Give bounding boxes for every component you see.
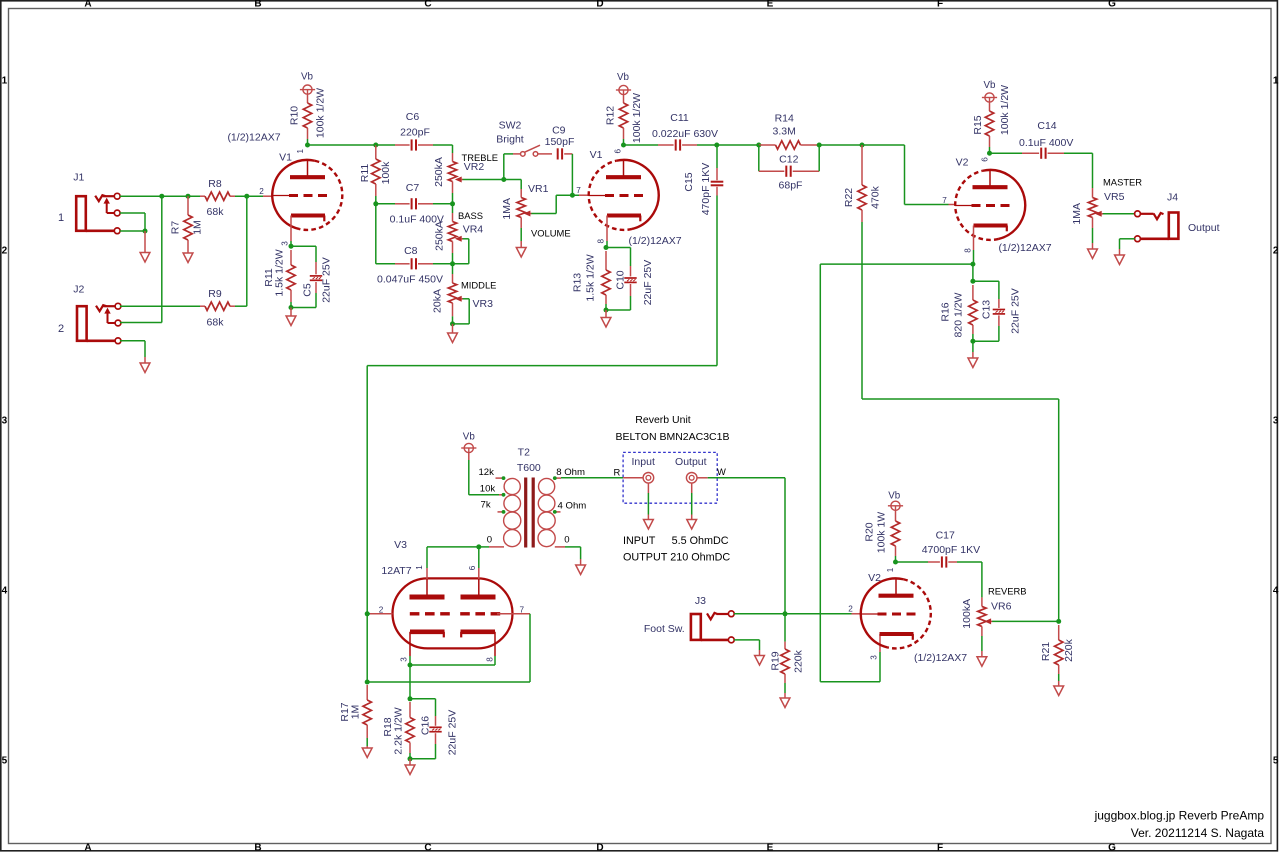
svg-text:R21: R21 — [1040, 642, 1052, 661]
svg-text:12k: 12k — [478, 467, 494, 478]
svg-text:VR3: VR3 — [473, 298, 494, 310]
power Vb (T2 primary) — [461, 432, 476, 453]
svg-text:8: 8 — [486, 657, 495, 662]
svg-text:R15: R15 — [972, 115, 984, 134]
svg-text:Bright: Bright — [496, 134, 524, 146]
svg-text:MASTER: MASTER — [1103, 177, 1142, 188]
svg-text:R16: R16 — [940, 302, 952, 321]
tube V1 second half (1/2)12AX7 — [589, 149, 682, 247]
svg-text:220k: 220k — [1063, 638, 1075, 662]
svg-text:OUTPUT 210 OhmDC: OUTPUT 210 OhmDC — [623, 551, 730, 563]
svg-text:B: B — [254, 0, 261, 9]
svg-text:5: 5 — [2, 756, 8, 767]
svg-text:Vb: Vb — [984, 80, 997, 91]
wire VR3 wiper loop — [453, 299, 470, 324]
svg-text:1: 1 — [886, 567, 895, 572]
svg-text:G: G — [1108, 843, 1116, 853]
ground J1 — [140, 253, 150, 263]
wire R13 ground node — [604, 308, 609, 318]
wire primary 0 to V3 plates — [427, 544, 489, 568]
svg-text:C5: C5 — [302, 283, 314, 297]
wire V3 plate pins — [427, 568, 479, 579]
svg-text:2: 2 — [58, 323, 64, 335]
svg-text:INPUT: INPUT — [623, 535, 656, 547]
svg-text:(1/2)12AX7: (1/2)12AX7 — [629, 235, 682, 247]
svg-text:12AT7: 12AT7 — [381, 565, 411, 577]
svg-text:F: F — [937, 0, 943, 9]
capacitor C6 220pF — [376, 111, 453, 151]
wire V1a plate node — [305, 143, 376, 148]
ground VR1 — [516, 248, 526, 258]
svg-text:Vb: Vb — [888, 491, 901, 502]
power Vb (V2b) — [888, 491, 903, 511]
svg-text:1: 1 — [1273, 76, 1279, 87]
tube V1 first half (1/2)12AX7 — [227, 132, 342, 230]
wire R22 to reverb mix node — [862, 399, 1059, 621]
svg-text:100k: 100k — [380, 161, 392, 185]
reverb unit title — [616, 414, 730, 443]
svg-text:4 Ohm: 4 Ohm — [558, 500, 587, 511]
switch SW2 Bright — [496, 120, 552, 157]
svg-text:E: E — [767, 0, 774, 9]
svg-text:5: 5 — [1273, 756, 1279, 767]
transformer T2 T600 — [478, 447, 586, 548]
svg-text:8: 8 — [597, 238, 606, 243]
svg-text:W: W — [717, 466, 726, 477]
wire V1b cathode — [604, 216, 609, 251]
svg-text:22uF 25V: 22uF 25V — [642, 260, 654, 306]
svg-text:V2: V2 — [868, 572, 881, 584]
svg-text:VR2: VR2 — [464, 161, 485, 173]
svg-text:VR5: VR5 — [1104, 191, 1125, 203]
resistor R16 820 1/2W — [940, 285, 978, 341]
potentiometer VR5 MASTER 1MA — [1071, 177, 1142, 250]
svg-text:C: C — [424, 843, 431, 853]
svg-text:R20: R20 — [864, 522, 876, 541]
connector J4 output jack — [1135, 192, 1220, 242]
svg-text:1M: 1M — [350, 705, 362, 720]
svg-text:0.022uF 630V: 0.022uF 630V — [652, 128, 718, 140]
svg-text:C6: C6 — [406, 111, 420, 123]
svg-text:6: 6 — [614, 148, 623, 153]
svg-text:68k: 68k — [207, 317, 225, 329]
ground V1a cathode — [286, 316, 296, 326]
wire J1 ring+sleeve to ground — [120, 213, 148, 253]
connector J2 (input jack 2) — [58, 284, 121, 344]
pin labels V1b — [576, 148, 622, 243]
svg-text:1: 1 — [58, 212, 64, 224]
capacitor C11 0.022uF 630V — [652, 112, 718, 151]
svg-text:3: 3 — [870, 655, 879, 660]
ground VR6 — [977, 657, 987, 667]
svg-text:2: 2 — [1273, 246, 1279, 257]
svg-text:(1/2)12AX7: (1/2)12AX7 — [227, 132, 280, 144]
ground J4 — [1115, 255, 1125, 265]
svg-text:R9: R9 — [208, 288, 222, 300]
connector J1 (input jack 1) — [58, 172, 120, 234]
wire volume node up to SW2 — [504, 154, 513, 180]
wire VR4 wiper loop — [453, 239, 469, 264]
resistor R11 100k (slope) — [359, 145, 392, 204]
svg-text:MIDDLE: MIDDLE — [461, 280, 496, 291]
resistor R12 100k 1/2W — [605, 93, 644, 145]
ground J3 — [755, 656, 765, 666]
resistor R11 1.5k 1/2W (cathode) — [263, 249, 295, 307]
svg-text:2: 2 — [259, 187, 264, 196]
svg-text:R11: R11 — [359, 164, 371, 183]
svg-text:R8: R8 — [208, 178, 222, 190]
svg-text:Output: Output — [675, 456, 707, 468]
svg-text:10k: 10k — [480, 484, 496, 495]
wire mix node to V2 grid — [819, 143, 955, 205]
power Vb (V1b) — [616, 72, 631, 95]
svg-text:T600: T600 — [517, 462, 541, 474]
svg-text:D: D — [596, 0, 603, 9]
svg-text:SW2: SW2 — [499, 120, 522, 132]
wire V1b plate node — [621, 143, 658, 148]
svg-text:0.1uF 400V: 0.1uF 400V — [1019, 137, 1073, 149]
svg-text:V1: V1 — [590, 149, 603, 161]
resistor R22 470k — [843, 145, 882, 399]
svg-text:A: A — [84, 0, 91, 9]
capacitor C12 68pF — [759, 145, 819, 192]
svg-text:R: R — [614, 466, 621, 477]
wire cathode ground node — [289, 305, 294, 316]
wire J1 tip to R8 with normalling branch — [120, 194, 200, 323]
resistor R8 68k — [200, 178, 235, 218]
capacitor C13 22uF 25V — [973, 281, 1022, 341]
ground R16/C13 — [968, 358, 978, 368]
pin labels V3 — [379, 565, 525, 662]
svg-text:F: F — [937, 843, 943, 853]
wire secondary 0 to ground — [565, 547, 581, 565]
wire VR5 wiper to J4 — [1103, 213, 1135, 215]
wire VR6 wiper to mix — [992, 619, 1061, 624]
svg-text:7: 7 — [520, 606, 525, 615]
svg-text:1M: 1M — [192, 220, 204, 235]
wire V2a plate node — [987, 151, 1022, 156]
pin labels V1a — [259, 148, 305, 245]
potentiometer VR6 REVERB 100kA — [961, 586, 1027, 657]
svg-text:4: 4 — [2, 586, 8, 597]
resistor R9 68k — [200, 288, 235, 329]
ground J2 — [140, 363, 150, 373]
svg-text:3.3M: 3.3M — [773, 126, 796, 138]
svg-text:R22: R22 — [843, 188, 855, 207]
wire R9 up to grid node — [235, 196, 247, 306]
resistor R14 3.3M — [756, 113, 821, 150]
svg-text:150pF: 150pF — [545, 136, 575, 148]
svg-text:R12: R12 — [605, 106, 617, 125]
svg-text:VR6: VR6 — [991, 600, 1012, 612]
capacitor C10 22uF 25V — [606, 248, 654, 311]
svg-text:C11: C11 — [670, 112, 689, 124]
ground R7 — [183, 253, 193, 263]
svg-text:1MA: 1MA — [501, 198, 513, 220]
svg-text:7: 7 — [576, 186, 581, 195]
svg-text:C15: C15 — [683, 172, 695, 191]
svg-text:J3: J3 — [695, 595, 706, 607]
wire R18 ground node — [408, 756, 413, 765]
svg-text:1.5k 1/2W: 1.5k 1/2W — [585, 254, 597, 301]
svg-text:250kA: 250kA — [433, 157, 445, 187]
resistor R19 220k — [770, 614, 805, 698]
svg-text:470k: 470k — [870, 185, 882, 209]
ground VR5 — [1088, 249, 1098, 259]
ground R21 — [1054, 686, 1064, 696]
ground R17 — [362, 748, 372, 758]
svg-text:250kA: 250kA — [434, 221, 446, 251]
svg-text:1: 1 — [296, 148, 305, 153]
svg-text:100kA: 100kA — [961, 599, 973, 629]
svg-text:Reverb Unit: Reverb Unit — [635, 414, 691, 426]
svg-text:Output: Output — [1188, 222, 1220, 234]
svg-text:A: A — [84, 843, 91, 853]
svg-text:6: 6 — [981, 157, 990, 162]
reverb impedance notes — [623, 535, 730, 563]
svg-text:3: 3 — [281, 241, 290, 246]
resistor R13 1.5k 1/2W — [572, 251, 611, 310]
svg-text:68pF: 68pF — [779, 180, 803, 192]
wire slope node down to C8 — [375, 204, 377, 264]
svg-text:V2: V2 — [956, 157, 969, 169]
svg-text:68k: 68k — [207, 206, 225, 218]
svg-text:7k: 7k — [481, 499, 491, 510]
potentiometer VR1 VOLUME 1MA — [501, 180, 571, 248]
svg-text:REVERB: REVERB — [988, 586, 1027, 597]
svg-text:22uF 25V: 22uF 25V — [447, 710, 459, 756]
svg-text:3: 3 — [2, 416, 8, 427]
svg-text:C10: C10 — [615, 270, 627, 289]
ground reverb output — [687, 520, 697, 530]
svg-text:100k 1/2W: 100k 1/2W — [631, 93, 643, 143]
svg-text:juggbox.blog.jp Reverb PreAmp: juggbox.blog.jp Reverb PreAmp — [1094, 809, 1265, 823]
svg-text:R10: R10 — [289, 106, 301, 125]
reverb unit dashed box — [623, 452, 717, 503]
capacitor C7 0.1uF 400V — [373, 182, 455, 226]
tube V3 12AT7 — [370, 539, 530, 656]
svg-text:220k: 220k — [793, 649, 805, 673]
wire J3 tip to grid node — [734, 611, 861, 616]
power Vb (V1a) — [300, 72, 315, 95]
resistor R10 100k 1/2W — [289, 88, 327, 145]
potentiometer VR4 BASS 250kA — [434, 204, 484, 264]
svg-text:22uF 25V: 22uF 25V — [1010, 288, 1022, 334]
svg-text:J1: J1 — [73, 172, 84, 184]
wire C15 to V3 grids — [367, 366, 717, 682]
svg-text:C13: C13 — [981, 300, 993, 319]
resistor R18 2.2k 1/2W — [382, 702, 414, 759]
wire V3 grid tie (pin7 loop) — [365, 614, 530, 685]
wire V1a cathode to R11/C5 — [289, 216, 317, 263]
wire reverb output W to recovery grid — [708, 478, 785, 614]
connector reverb Input — [614, 456, 655, 483]
svg-text:20kA: 20kA — [432, 289, 444, 313]
svg-text:0: 0 — [487, 535, 492, 546]
wire plate node to tone stack — [373, 143, 378, 148]
ground R18/C16 — [405, 765, 415, 775]
wire V2b plate node — [893, 560, 928, 565]
svg-text:BELTON BMN2AC3C1B: BELTON BMN2AC3C1B — [616, 431, 730, 443]
svg-text:Vb: Vb — [617, 72, 630, 83]
connector reverb Output — [675, 456, 726, 483]
wire VR2 wiper to volume node — [463, 177, 507, 182]
svg-text:470pF 1KV: 470pF 1KV — [700, 163, 712, 216]
ground tone stack — [448, 333, 458, 343]
wire Vb to 10k tap — [469, 452, 503, 495]
svg-text:1: 1 — [2, 76, 8, 87]
svg-text:C: C — [424, 0, 431, 9]
svg-text:1MA: 1MA — [1071, 203, 1083, 225]
svg-text:7: 7 — [942, 196, 947, 205]
wire reverb output shield — [691, 483, 693, 519]
svg-text:100k 1/2W: 100k 1/2W — [999, 85, 1011, 135]
svg-text:C7: C7 — [406, 182, 420, 194]
potentiometer VR3 MIDDLE 20kA — [432, 264, 497, 324]
svg-text:(1/2)12AX7: (1/2)12AX7 — [914, 652, 967, 664]
svg-text:V3: V3 — [394, 539, 407, 551]
wire J3 sleeve to ground — [734, 640, 760, 656]
svg-text:R7: R7 — [170, 221, 182, 235]
svg-text:G: G — [1108, 0, 1116, 9]
wire V3 cathodes common — [408, 656, 496, 701]
svg-text:5.5 OhmDC: 5.5 OhmDC — [672, 535, 729, 547]
wire V2a cathode — [970, 226, 975, 284]
ground V1b cathode — [601, 318, 611, 328]
svg-text:V1: V1 — [279, 152, 292, 164]
svg-text:0: 0 — [564, 535, 569, 546]
power Vb (V2a) — [982, 80, 997, 102]
svg-text:100k 1/2W: 100k 1/2W — [315, 88, 327, 138]
capacitor C17 4700pF 1KV — [922, 530, 982, 598]
resistor R17 1M — [339, 685, 372, 748]
ground reverb input — [644, 520, 654, 530]
svg-text:R14: R14 — [775, 113, 794, 125]
wire VR1 wiper to V1 pin7 — [531, 193, 588, 214]
svg-text:C8: C8 — [404, 245, 418, 257]
wire J2 tip to R9 — [120, 305, 200, 307]
svg-text:8: 8 — [964, 248, 973, 253]
title text — [1094, 809, 1265, 840]
svg-text:E: E — [767, 843, 774, 853]
svg-text:2: 2 — [2, 246, 8, 257]
svg-text:22uF 25V: 22uF 25V — [321, 257, 333, 303]
svg-text:Vb: Vb — [463, 432, 476, 443]
svg-text:VOLUME: VOLUME — [531, 228, 571, 239]
svg-text:R19: R19 — [770, 651, 782, 670]
svg-text:2: 2 — [379, 606, 384, 615]
wire J2 sleeve to ground — [120, 341, 145, 363]
svg-text:R13: R13 — [572, 273, 584, 292]
svg-text:Vb: Vb — [301, 72, 314, 83]
connector J3 Foot Sw. — [644, 595, 734, 643]
svg-text:J2: J2 — [73, 284, 84, 296]
wire R8 to V1 pin2 — [235, 194, 273, 199]
wire J4 sleeve to ground — [1120, 239, 1135, 255]
resistor R15 100k 1/2W — [972, 85, 1011, 153]
svg-text:3: 3 — [400, 657, 409, 662]
wire cathode to V2b cathode (shared) — [820, 264, 973, 682]
ground R19 — [780, 698, 790, 708]
svg-text:C9: C9 — [552, 125, 566, 137]
svg-text:Input: Input — [632, 456, 655, 468]
svg-text:100k 1W: 100k 1W — [876, 512, 888, 554]
tube V2 first half (1/2)12AX7 — [955, 157, 1052, 255]
svg-text:8 Ohm: 8 Ohm — [556, 467, 585, 478]
svg-text:Foot Sw.: Foot Sw. — [644, 623, 685, 635]
wire 8 Ohm to reverb input — [561, 477, 623, 479]
svg-text:C17: C17 — [936, 530, 955, 542]
svg-text:J4: J4 — [1167, 192, 1178, 204]
pin labels V2a — [942, 157, 989, 253]
svg-text:3: 3 — [1273, 416, 1279, 427]
svg-text:2.2k 1/2W: 2.2k 1/2W — [393, 707, 405, 754]
svg-text:2: 2 — [848, 605, 853, 614]
ground T2 secondary — [576, 565, 586, 575]
svg-text:C14: C14 — [1037, 120, 1056, 132]
svg-text:BASS: BASS — [458, 210, 483, 221]
wire R16 ground node — [970, 339, 975, 358]
capacitor C15 470pF 1KV — [683, 145, 724, 366]
resistor R21 220k — [1040, 625, 1075, 686]
svg-text:(1/2)12AX7: (1/2)12AX7 — [998, 242, 1051, 254]
svg-text:1: 1 — [415, 565, 424, 570]
capacitor C16 22uF 25V — [410, 699, 459, 759]
svg-text:VR1: VR1 — [528, 183, 549, 195]
svg-text:6: 6 — [468, 565, 477, 570]
svg-text:220pF: 220pF — [400, 127, 430, 139]
svg-text:0.047uF 450V: 0.047uF 450V — [377, 274, 443, 286]
svg-text:VR4: VR4 — [463, 224, 484, 236]
capacitor C5 22uF 25V — [291, 257, 333, 307]
capacitor C9 150pF — [545, 125, 575, 196]
svg-text:1.5k 1/2W: 1.5k 1/2W — [274, 249, 286, 296]
resistor R20 100k 1W — [864, 510, 900, 562]
svg-text:B: B — [254, 843, 261, 853]
wire V3 grid node — [365, 611, 370, 616]
svg-text:Ver. 20211214 S. Nagata: Ver. 20211214 S. Nagata — [1131, 826, 1265, 840]
wire VR3 bottom node — [450, 321, 455, 333]
wire C11 out node — [714, 143, 759, 148]
svg-text:4700pF 1KV: 4700pF 1KV — [922, 544, 980, 556]
svg-text:C12: C12 — [779, 154, 798, 166]
svg-text:C16: C16 — [420, 716, 432, 735]
wire reverb input shield — [647, 483, 649, 519]
resistor R7 1M — [170, 196, 204, 253]
svg-text:D: D — [596, 843, 603, 853]
svg-text:4: 4 — [1273, 586, 1279, 597]
capacitor C14 0.1uF 400V — [1019, 120, 1092, 188]
capacitor C8 0.047uF 450V — [376, 245, 455, 286]
svg-text:820 1/2W: 820 1/2W — [953, 292, 965, 337]
svg-text:T2: T2 — [518, 447, 530, 459]
pin labels V2b — [848, 567, 895, 660]
potentiometer VR2 TREBLE 250kA — [433, 145, 498, 204]
tube V2 second half (1/2)12AX7 — [861, 572, 968, 664]
